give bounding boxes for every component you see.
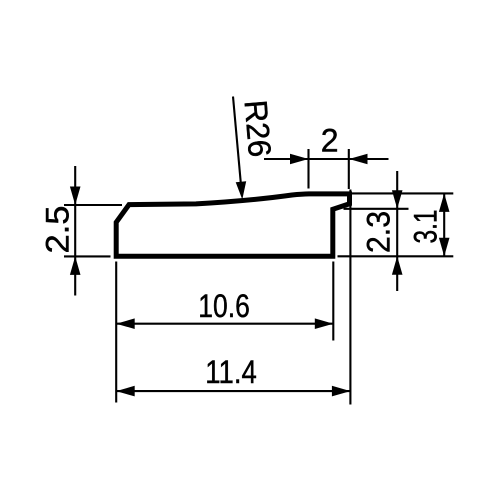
dimension 2.5 arrows xyxy=(70,187,81,275)
dimension 11.4 line xyxy=(116,190,350,405)
dimension 2 line xyxy=(264,149,389,189)
leader R26 line xyxy=(233,97,241,184)
leader R26 arrow xyxy=(236,181,247,199)
profile outline xyxy=(116,194,349,256)
dimension 11.4 arrows xyxy=(116,386,350,397)
svg-text:R26: R26 xyxy=(238,99,279,159)
svg-text:2.5: 2.5 xyxy=(40,206,76,254)
svg-text:3.1: 3.1 xyxy=(408,210,444,244)
dimension 2.3 line xyxy=(344,171,409,291)
dimension 2.3 arrows xyxy=(392,190,403,274)
dimension 2.5 line xyxy=(64,166,122,296)
dimension 3.1 line xyxy=(338,193,454,256)
dimension 2 arrows xyxy=(290,154,368,165)
svg-text:11.4: 11.4 xyxy=(205,354,256,390)
dimension 10.6 arrows xyxy=(116,318,333,329)
dimension 10.6 line xyxy=(116,262,333,403)
svg-text:10.6: 10.6 xyxy=(198,288,250,324)
dimension 3.1 arrows xyxy=(439,193,450,256)
svg-text:2: 2 xyxy=(321,123,339,159)
svg-text:2.3: 2.3 xyxy=(361,211,397,253)
